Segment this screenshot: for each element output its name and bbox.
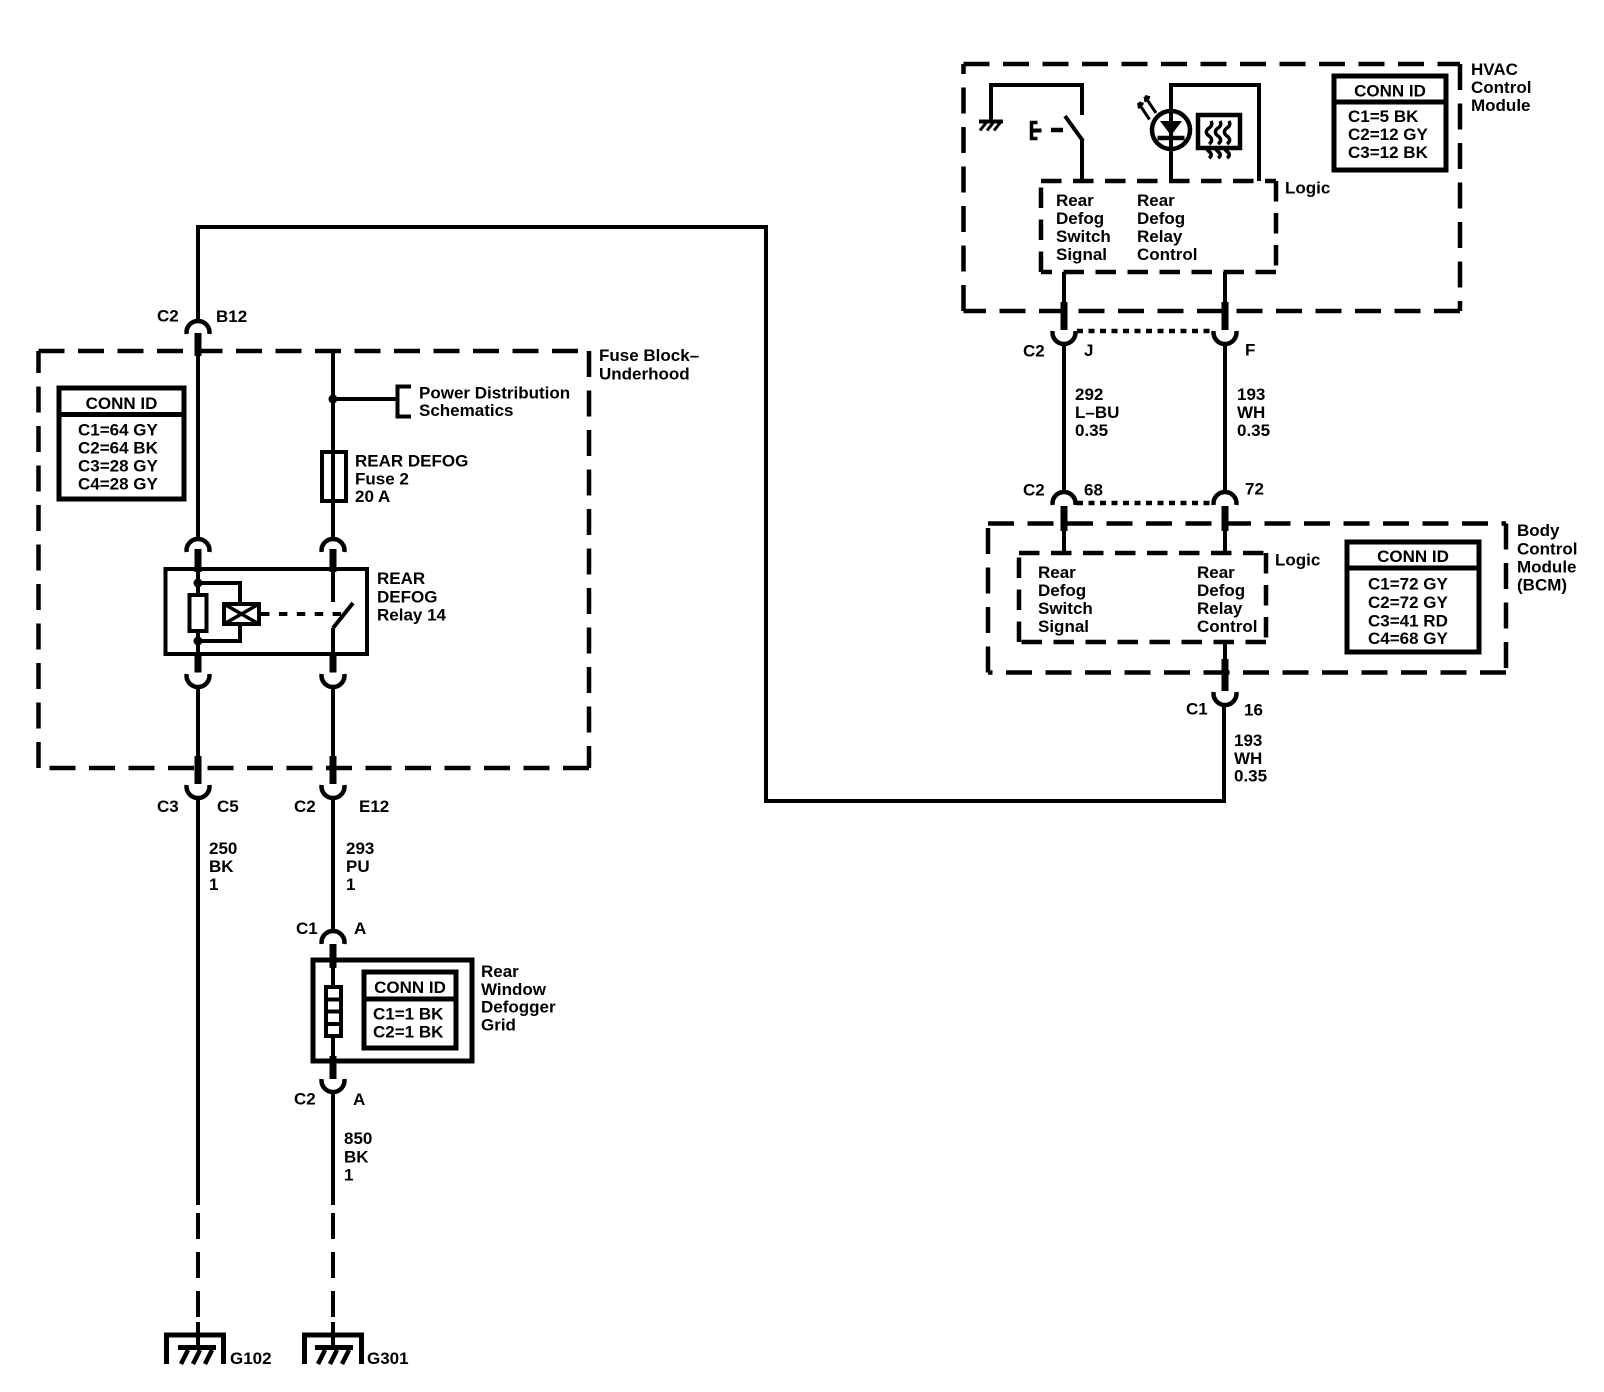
wire 293 PU 1 to defogger grid xyxy=(331,798,335,932)
wire fuse feed from power distribution xyxy=(331,353,335,540)
label Fuse Block-Underhood xyxy=(599,346,699,384)
svg-text:Defog: Defog xyxy=(1056,209,1104,228)
connector C3/C5 xyxy=(157,756,239,816)
svg-text:Switch: Switch xyxy=(1056,227,1111,246)
wire 292 L-BU 0.35 xyxy=(1062,344,1066,493)
dotted harness connector lines xyxy=(1077,331,1212,503)
svg-text:Schematics: Schematics xyxy=(419,401,514,420)
wire relay to fuse block edge right xyxy=(331,686,335,757)
svg-text:Rear: Rear xyxy=(1197,563,1235,582)
svg-text:Underhood: Underhood xyxy=(599,365,690,384)
svg-text:250: 250 xyxy=(209,839,237,858)
svg-text:F: F xyxy=(1245,341,1255,360)
wire B12 to relay xyxy=(196,356,200,540)
svg-text:Body: Body xyxy=(1517,521,1560,540)
wire 68 into BCM logic xyxy=(1062,531,1066,553)
node coil bottom xyxy=(194,637,203,646)
svg-text:1: 1 xyxy=(346,875,355,894)
resistor relay coil suppression xyxy=(190,595,207,631)
defogger heat icon xyxy=(1198,115,1240,158)
node junction power tap xyxy=(329,395,338,404)
ground G301 xyxy=(305,1322,409,1368)
label Body Control Module (BCM) xyxy=(1517,521,1577,595)
BCM logic dashed box xyxy=(1019,553,1266,642)
svg-text:C4=28 GY: C4=28 GY xyxy=(78,475,159,494)
connector C2/B12 xyxy=(157,307,247,357)
svg-text:Rear: Rear xyxy=(481,962,519,981)
svg-text:C2: C2 xyxy=(1023,481,1045,500)
svg-text:A: A xyxy=(354,919,366,938)
svg-text:C2=12 GY: C2=12 GY xyxy=(1348,125,1429,144)
svg-text:Window: Window xyxy=(481,980,547,999)
svg-text:Relay: Relay xyxy=(1197,599,1243,618)
svg-text:Logic: Logic xyxy=(1275,551,1320,570)
label 292 L-BU 0.35 xyxy=(1075,385,1119,440)
svg-text:C1=72 GY: C1=72 GY xyxy=(1368,575,1449,594)
svg-text:C3: C3 xyxy=(157,797,179,816)
relay coil (box with X) xyxy=(224,604,259,624)
fuse F2 REAR DEFOG 20A xyxy=(322,452,468,507)
ground G102 xyxy=(167,1322,272,1368)
svg-text:C1: C1 xyxy=(296,919,318,938)
svg-text:20 A: 20 A xyxy=(355,487,390,506)
svg-text:193: 193 xyxy=(1237,385,1265,404)
wire BCM logic to C1/16 xyxy=(1223,642,1227,661)
svg-text:(BCM): (BCM) xyxy=(1517,576,1567,595)
svg-text:REAR DEFOG: REAR DEFOG xyxy=(355,452,468,471)
svg-text:Control: Control xyxy=(1197,617,1257,636)
svg-text:292: 292 xyxy=(1075,385,1103,404)
svg-text:0.35: 0.35 xyxy=(1234,767,1267,786)
svg-text:Control: Control xyxy=(1137,245,1197,264)
svg-text:C2: C2 xyxy=(294,1090,316,1109)
wire 850 BK 1 to ground xyxy=(331,1093,335,1205)
bracket power distribution reference xyxy=(398,387,412,417)
connector relay pin top-right xyxy=(322,539,345,572)
svg-text:Grid: Grid xyxy=(481,1016,516,1035)
switch fixed contact xyxy=(1032,123,1042,139)
wire 193 WH 0.35 upper xyxy=(1223,344,1227,493)
rear window defogger grid box xyxy=(313,960,472,1061)
svg-text:Fuse Block–: Fuse Block– xyxy=(599,346,699,365)
svg-text:Rear: Rear xyxy=(1038,563,1076,582)
conn id table (grid) xyxy=(364,972,456,1048)
LED indicator xyxy=(1139,97,1191,150)
label 193 WH 0.35 upper xyxy=(1237,385,1270,440)
wire relay to fuse block edge left xyxy=(196,686,200,757)
wire dashed to G102 xyxy=(196,1213,200,1320)
wire 72 into BCM logic xyxy=(1223,531,1227,553)
svg-text:WH: WH xyxy=(1234,749,1262,768)
connector relay pin bottom-left xyxy=(187,652,210,687)
svg-text:Module: Module xyxy=(1471,96,1531,115)
svg-text:C2: C2 xyxy=(157,307,179,326)
label 193 WH 0.35 lower xyxy=(1234,731,1267,786)
connector C2/A grid bottom xyxy=(294,1056,365,1109)
svg-text:C1=64 GY: C1=64 GY xyxy=(78,421,159,440)
svg-text:B12: B12 xyxy=(216,307,247,326)
label Rear Defog Switch Signal (HVAC) xyxy=(1056,191,1111,264)
svg-text:16: 16 xyxy=(1244,701,1263,720)
connector C2/J xyxy=(1023,302,1093,361)
label 250 BK 1 xyxy=(209,839,237,894)
svg-text:C1: C1 xyxy=(1186,700,1208,719)
svg-text:C2=64 BK: C2=64 BK xyxy=(78,439,159,458)
svg-text:Power Distribution: Power Distribution xyxy=(419,384,570,403)
svg-text:Signal: Signal xyxy=(1056,245,1107,264)
svg-text:A: A xyxy=(353,1090,365,1109)
dashed actuator link xyxy=(261,612,346,616)
svg-text:J: J xyxy=(1084,341,1093,360)
svg-text:Control: Control xyxy=(1471,78,1531,97)
svg-text:1: 1 xyxy=(344,1166,353,1185)
wire dashed to G301 xyxy=(331,1213,335,1320)
svg-text:72: 72 xyxy=(1245,480,1264,499)
svg-text:C1=1 BK: C1=1 BK xyxy=(373,1005,444,1024)
HVAC control module dashed box xyxy=(964,64,1461,311)
wire relay coil left leg xyxy=(196,569,200,654)
svg-text:C2: C2 xyxy=(1023,342,1045,361)
svg-text:CONN ID: CONN ID xyxy=(374,978,446,997)
wire coil branch loop xyxy=(198,583,240,641)
svg-text:C3=12 BK: C3=12 BK xyxy=(1348,143,1429,162)
svg-text:0.35: 0.35 xyxy=(1075,421,1108,440)
connector C1/16 xyxy=(1186,659,1263,720)
internal ground (HVAC) xyxy=(979,122,1003,131)
svg-text:G301: G301 xyxy=(367,1349,409,1368)
node coil top xyxy=(194,579,203,588)
svg-text:Relay 14: Relay 14 xyxy=(377,606,447,625)
svg-text:Defog: Defog xyxy=(1038,581,1086,600)
connector C2/E12 xyxy=(294,756,389,816)
svg-text:Defog: Defog xyxy=(1197,581,1245,600)
svg-text:1: 1 xyxy=(209,875,218,894)
svg-text:Defog: Defog xyxy=(1137,209,1185,228)
wire through grid xyxy=(331,968,335,1059)
svg-text:G102: G102 xyxy=(230,1349,272,1368)
svg-text:BK: BK xyxy=(209,857,234,876)
svg-text:C4=68 GY: C4=68 GY xyxy=(1368,629,1449,648)
svg-text:Rear: Rear xyxy=(1137,191,1175,210)
relay switch contact xyxy=(333,569,353,654)
label REAR DEFOG Relay 14 xyxy=(377,569,447,625)
svg-text:CONN ID: CONN ID xyxy=(1377,547,1449,566)
wire to power distribution reference xyxy=(333,397,398,401)
label HVAC Control Module xyxy=(1471,60,1531,115)
svg-text:WH: WH xyxy=(1237,403,1265,422)
svg-text:PU: PU xyxy=(346,857,370,876)
wire switch to logic xyxy=(1080,140,1084,181)
label Rear Window Defogger Grid xyxy=(481,962,556,1035)
svg-text:CONN ID: CONN ID xyxy=(86,394,158,413)
svg-text:C2=1 BK: C2=1 BK xyxy=(373,1023,444,1042)
svg-text:C5: C5 xyxy=(217,797,239,816)
switch blade (rear defog switch) xyxy=(1065,116,1083,141)
relay K14 REAR DEFOG box xyxy=(166,569,368,654)
HVAC logic dashed box xyxy=(1041,181,1276,272)
wire: main run B12 up, across top, down right side, along bottom, up to BCM C1/16 xyxy=(198,227,1224,801)
wire LED branch xyxy=(1171,85,1259,181)
label Rear Defog Relay Control (BCM) xyxy=(1197,563,1257,636)
svg-text:C2=72 GY: C2=72 GY xyxy=(1368,593,1449,612)
label Rear Defog Switch Signal (BCM) xyxy=(1038,563,1093,636)
svg-text:Control: Control xyxy=(1517,540,1577,559)
wire logic to C2/J xyxy=(1062,272,1066,303)
wire switch to internal ground xyxy=(991,85,1082,122)
label Power Distribution Schematics xyxy=(419,384,570,421)
svg-text:L–BU: L–BU xyxy=(1075,403,1119,422)
svg-text:Fuse 2: Fuse 2 xyxy=(355,470,409,489)
svg-text:68: 68 xyxy=(1084,481,1103,500)
svg-text:193: 193 xyxy=(1234,731,1262,750)
svg-text:Defogger: Defogger xyxy=(481,998,556,1017)
svg-text:Relay: Relay xyxy=(1137,227,1183,246)
wire 250 BK 1 to ground xyxy=(196,798,200,1205)
svg-text:REAR: REAR xyxy=(377,569,425,588)
conn id table (BCM) xyxy=(1347,542,1479,652)
svg-text:850: 850 xyxy=(344,1129,372,1148)
svg-text:293: 293 xyxy=(346,839,374,858)
svg-text:Module: Module xyxy=(1517,558,1577,577)
connector relay pin top-left xyxy=(187,539,210,572)
connector relay pin bottom-right xyxy=(322,652,345,687)
svg-text:C3=28 GY: C3=28 GY xyxy=(78,457,159,476)
svg-text:Signal: Signal xyxy=(1038,617,1089,636)
svg-text:Logic: Logic xyxy=(1285,179,1330,198)
wire logic to F xyxy=(1223,272,1227,303)
switch link dash xyxy=(1051,128,1063,133)
conn id table (fuse block) xyxy=(59,388,184,499)
svg-text:Switch: Switch xyxy=(1038,599,1093,618)
svg-text:BK: BK xyxy=(344,1148,369,1167)
svg-text:C2: C2 xyxy=(294,797,316,816)
label Rear Defog Relay Control (HVAC) xyxy=(1137,191,1197,264)
connector C1/A grid xyxy=(296,919,366,968)
body control module dashed box xyxy=(988,524,1506,673)
fuse block underhood dashed box xyxy=(39,351,590,768)
label 293 PU 1 xyxy=(346,839,374,894)
svg-text:C1=5 BK: C1=5 BK xyxy=(1348,107,1419,126)
svg-text:DEFOG: DEFOG xyxy=(377,588,437,607)
connector C2/68 xyxy=(1023,481,1103,532)
conn id table (HVAC) xyxy=(1334,76,1446,170)
svg-text:0.35: 0.35 xyxy=(1237,421,1270,440)
label 850 BK 1 xyxy=(344,1129,372,1185)
svg-text:C3=41 RD: C3=41 RD xyxy=(1368,612,1448,631)
svg-text:E12: E12 xyxy=(359,797,389,816)
connector F xyxy=(1213,302,1255,360)
svg-text:CONN ID: CONN ID xyxy=(1354,82,1426,101)
connector 72 xyxy=(1214,480,1264,532)
svg-text:HVAC: HVAC xyxy=(1471,60,1518,79)
svg-text:Rear: Rear xyxy=(1056,191,1094,210)
grid heater element xyxy=(326,987,341,1036)
